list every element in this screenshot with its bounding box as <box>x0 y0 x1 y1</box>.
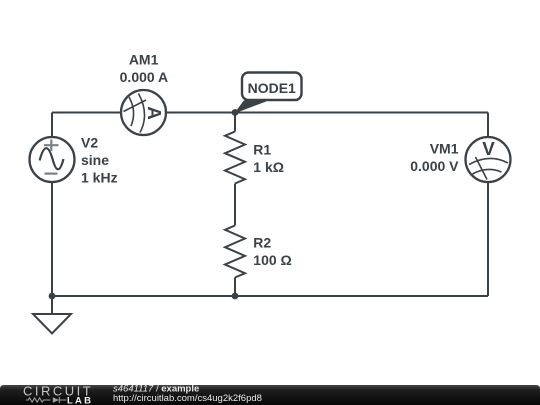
wire right vertical VM1 branch <box>487 113 489 297</box>
footer bar <box>0 385 540 405</box>
svg-text:V2: V2 <box>81 134 98 150</box>
wire top horizontal from V2 to VM1 <box>52 112 488 114</box>
wire R2 to bottom <box>234 278 236 297</box>
junction dot bottom left <box>49 293 56 300</box>
svg-text:sine: sine <box>81 152 109 168</box>
svg-text:1 kHz: 1 kHz <box>81 170 118 186</box>
svg-text:0.000 A: 0.000 A <box>120 69 169 85</box>
CircuitLab logo resistor-diode squiggle <box>26 398 51 402</box>
svg-text:1 kΩ: 1 kΩ <box>253 159 284 175</box>
svg-text:http://circuitlab.com/cs4ug2k2: http://circuitlab.com/cs4ug2k2f6pd8 <box>113 393 262 404</box>
voltage source V2 <box>30 137 75 182</box>
svg-text:V: V <box>482 138 495 159</box>
svg-text:R2: R2 <box>253 234 271 250</box>
svg-text:NODE1: NODE1 <box>248 80 296 96</box>
wire node to R1 <box>234 113 236 132</box>
svg-text:A: A <box>144 106 165 120</box>
wire R1 to R2 <box>234 184 236 226</box>
svg-text:0.000 V: 0.000 V <box>410 158 459 174</box>
junction dot bottom middle <box>232 293 239 300</box>
wire bottom horizontal <box>52 295 488 297</box>
voltmeter VM1 <box>466 137 511 182</box>
svg-text:VM1: VM1 <box>430 141 459 157</box>
junction dot node A (top) <box>232 109 239 116</box>
node NODE1 callout <box>236 73 302 113</box>
resistor R1 <box>225 132 245 184</box>
svg-text:100 Ω: 100 Ω <box>253 252 291 268</box>
svg-text:AM1: AM1 <box>129 51 159 67</box>
wire left vertical V2 branch <box>51 113 53 297</box>
svg-text:LAB: LAB <box>67 395 93 405</box>
ground <box>33 296 71 334</box>
svg-text:R1: R1 <box>253 142 271 158</box>
ammeter AM1 <box>121 90 166 135</box>
resistor R2 <box>225 226 245 278</box>
